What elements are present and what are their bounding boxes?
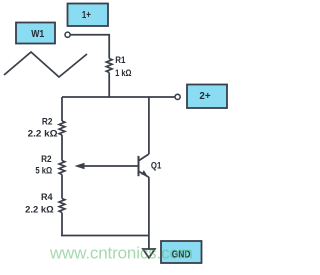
- transistor Q1 emitter arrow: [141, 170, 147, 175]
- svg-text:2+: 2+: [199, 91, 210, 102]
- wire R1 to node: [108, 73, 110, 98]
- terminal box 1+: [68, 4, 109, 27]
- terminal box GND: [161, 241, 202, 263]
- collector wire: [148, 97, 150, 154]
- wire from terminal to R1: [71, 35, 110, 59]
- resistor R1: [106, 59, 112, 73]
- emitter wire: [148, 177, 150, 249]
- resistor R2 pot (5k): [59, 161, 65, 175]
- svg-text:R2: R2: [41, 154, 52, 164]
- transistor Q1 base bar: [138, 156, 140, 176]
- svg-text:2.2 kΩ: 2.2 kΩ: [25, 204, 54, 214]
- svg-text:2.2 kΩ: 2.2 kΩ: [28, 128, 59, 138]
- waveform triangle symbol: [4, 52, 87, 77]
- transistor Q1 emitter stroke: [139, 172, 149, 178]
- pot wiper arrowhead: [75, 163, 85, 169]
- svg-text:R2: R2: [42, 116, 53, 126]
- terminal circle node 2+: [175, 94, 180, 99]
- terminal box W1: [16, 23, 55, 44]
- svg-text:R1: R1: [115, 55, 125, 65]
- resistor R2 (2.2k): [59, 121, 65, 135]
- bottom horizontal wire: [61, 235, 149, 237]
- wire: [61, 135, 63, 161]
- svg-text:1 kΩ: 1 kΩ: [115, 68, 132, 78]
- resistor R4: [59, 199, 65, 213]
- wire: [61, 175, 63, 199]
- svg-text:Q1: Q1: [151, 160, 161, 170]
- wire top-left vertical: [61, 97, 63, 121]
- svg-text:5 kΩ: 5 kΩ: [35, 166, 52, 176]
- wire: [61, 213, 63, 237]
- svg-text:W1: W1: [31, 29, 44, 40]
- svg-text:www.cntronics.com: www.cntronics.com: [49, 244, 193, 263]
- top horizontal wire: [62, 96, 175, 98]
- svg-text:R4: R4: [41, 192, 53, 202]
- ground: [143, 249, 155, 258]
- svg-text:1+: 1+: [82, 10, 91, 21]
- pot wiper arrow wire: [82, 165, 139, 167]
- terminal circle node 1+: [65, 32, 70, 37]
- terminal box 2+: [187, 85, 227, 109]
- transistor Q1 collector stroke: [139, 154, 149, 160]
